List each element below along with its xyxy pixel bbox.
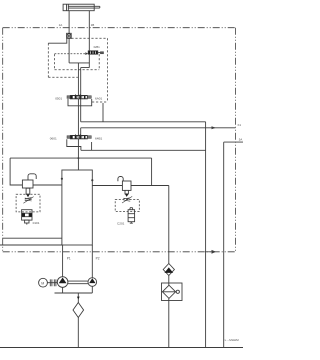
svg-text:P2: P2 [96,257,100,261]
svg-text:0601: 0601 [50,137,57,141]
svg-text:K1: K1 [238,123,242,127]
svg-text:L→MHHM: L→MHHM [225,338,240,342]
svg-text:1B: 1B [91,23,95,27]
svg-text:C201: C201 [117,222,125,226]
svg-text:0501: 0501 [55,96,62,100]
svg-text:P1: P1 [67,257,71,261]
svg-text:1A: 1A [59,23,63,27]
svg-text:M: M [41,281,44,285]
svg-text:02B1: 02B1 [94,45,101,49]
svg-text:64B1: 64B1 [95,136,103,140]
svg-text:5A: 5A [239,138,243,142]
svg-text:6A01: 6A01 [95,96,103,100]
svg-text:0101: 0101 [33,221,40,225]
